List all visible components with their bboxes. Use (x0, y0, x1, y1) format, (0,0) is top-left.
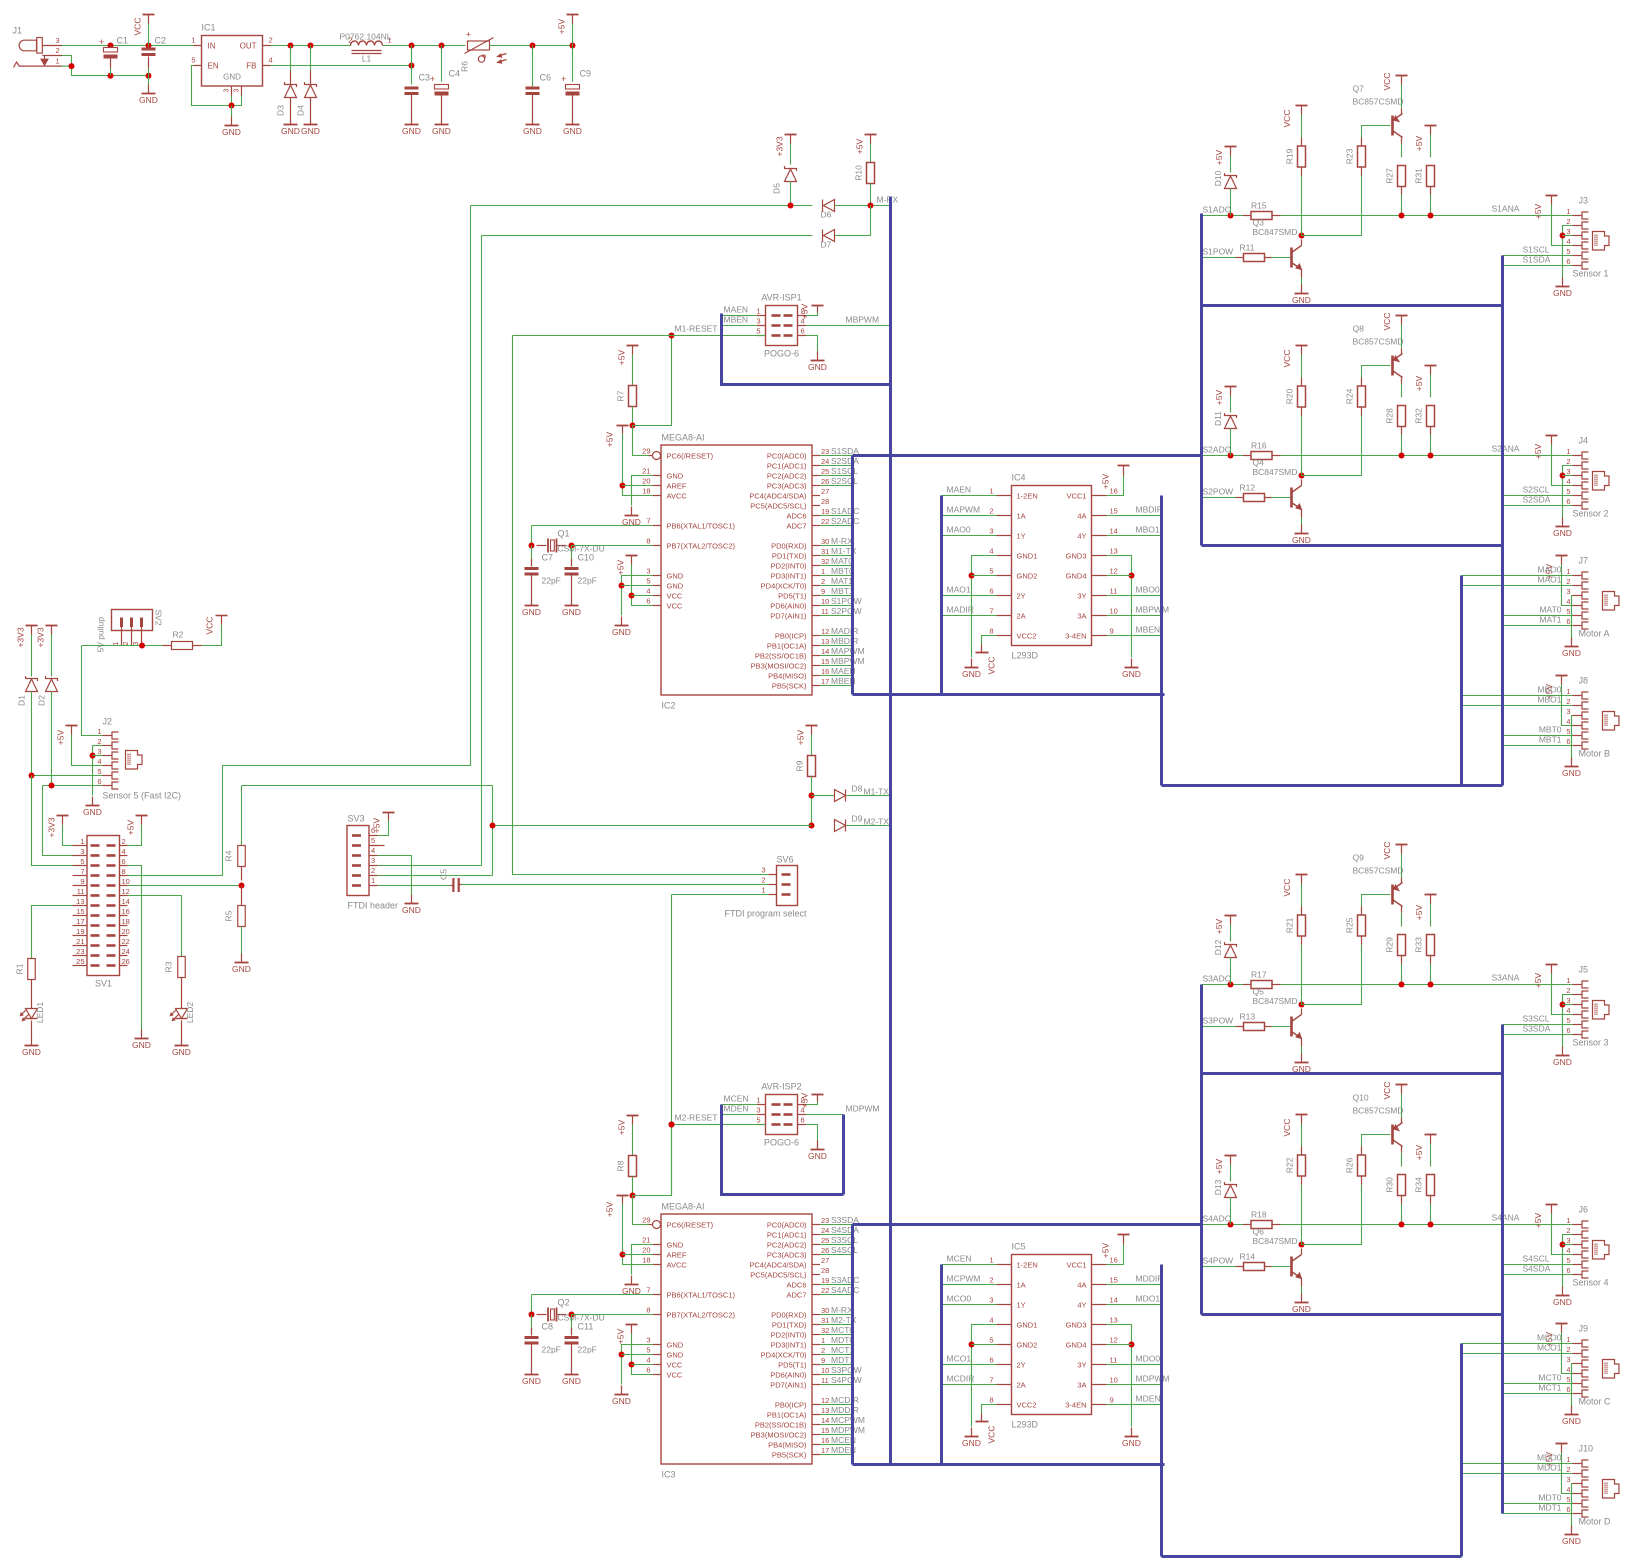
diode D12 symbol (1225, 942, 1237, 958)
svg-text:16: 16 (122, 907, 130, 916)
wire (806, 1102, 818, 1105)
capacitor C8 (532, 1315, 554, 1336)
net label S4SDA (1523, 1264, 1551, 1274)
svg-text:1: 1 (756, 1096, 760, 1105)
junction D1/J2 pin5 (29, 773, 35, 779)
svg-text:PD6(AIN0): PD6(AIN0) (770, 1370, 807, 1379)
junction R34/S4ANA (1428, 1222, 1434, 1228)
svg-text:18: 18 (642, 487, 650, 496)
wire (32, 906, 73, 959)
svg-text:Sensor 5 (Fast I2C): Sensor 5 (Fast I2C) (103, 791, 182, 801)
svg-text:M-RX: M-RX (831, 1305, 853, 1315)
svg-text:+5V: +5V (1414, 375, 1424, 391)
supply +5V at D12 (1214, 916, 1237, 935)
wire (1107, 575, 1132, 577)
svg-text:GND: GND (223, 73, 241, 82)
svg-text:PD6(AIN0): PD6(AIN0) (770, 601, 807, 610)
net stub pin 9 MDT1 (820, 1355, 854, 1365)
svg-text:1: 1 (821, 1336, 825, 1345)
svg-text:22pF: 22pF (542, 1345, 561, 1355)
svg-text:18: 18 (122, 917, 130, 926)
svg-text:9: 9 (1110, 627, 1114, 636)
svg-text:6: 6 (122, 857, 126, 866)
wire (1462, 705, 1573, 707)
junction Q1 right (569, 543, 575, 549)
wire (93, 755, 103, 757)
svg-text:PB5(SCK): PB5(SCK) (772, 681, 807, 690)
junction FB/C3 (409, 63, 415, 69)
diode D1 symbol (26, 676, 38, 692)
svg-text:FB: FB (246, 62, 256, 71)
header AVR-ISP1 (756, 293, 806, 359)
wire (62, 45, 194, 47)
svg-text:MADIR: MADIR (947, 605, 974, 615)
svg-text:BC847SMD: BC847SMD (1253, 467, 1298, 477)
svg-text:+5V: +5V (855, 138, 865, 154)
svg-text:5: 5 (646, 1346, 650, 1355)
wire (63, 825, 73, 846)
junction GND4 IC5 (1129, 1342, 1135, 1348)
transistor Q6 (1292, 1255, 1302, 1279)
svg-text:22: 22 (122, 937, 130, 946)
net stub MBPWM (1107, 605, 1170, 616)
connector J2 Sensor 5 (97, 717, 181, 801)
net stub pin 2 MCT1 (820, 1345, 854, 1355)
svg-text:PD5(T1): PD5(T1) (778, 1360, 807, 1369)
wire (572, 24, 574, 46)
wire (623, 485, 654, 487)
wire (481, 236, 483, 866)
svg-text:C3: C3 (419, 73, 431, 83)
resistor R7 (616, 386, 637, 407)
svg-text:J10: J10 (1579, 1444, 1594, 1454)
svg-text:3A: 3A (1077, 1380, 1086, 1389)
svg-text:PC1(ADC1): PC1(ADC1) (767, 1230, 807, 1239)
svg-text:1: 1 (371, 876, 375, 885)
svg-text:+: + (466, 30, 471, 40)
svg-text:MAT1: MAT1 (1539, 615, 1561, 625)
svg-text:4: 4 (646, 587, 650, 596)
svg-text:R13: R13 (1240, 1012, 1256, 1022)
resistor R16 (1251, 441, 1272, 460)
svg-text:14: 14 (1110, 1296, 1118, 1305)
ground at VCC pins (612, 1386, 631, 1407)
svg-text:MDT0: MDT0 (1538, 1493, 1561, 1503)
svg-text:22: 22 (821, 1286, 829, 1295)
svg-text:S1ADC: S1ADC (1203, 205, 1231, 215)
svg-text:BC857CSMD: BC857CSMD (1353, 97, 1404, 107)
svg-text:OUT: OUT (240, 42, 257, 51)
bus (1501, 256, 1504, 786)
capacitor C11 plates (565, 1336, 579, 1345)
svg-text:R24: R24 (1345, 388, 1355, 404)
wire (972, 1344, 997, 1346)
junction D2/J2 pin6 (49, 783, 55, 789)
bus (1460, 1344, 1463, 1557)
svg-text:1-2EN: 1-2EN (1017, 491, 1038, 500)
svg-text:GND: GND (1553, 288, 1572, 298)
svg-text:9: 9 (1110, 1396, 1114, 1405)
ground below LED1 (22, 1037, 41, 1058)
bus (1202, 1313, 1503, 1316)
svg-text:PB6(XTAL1/TOSC1): PB6(XTAL1/TOSC1) (667, 1290, 736, 1299)
svg-text:R28: R28 (1385, 408, 1395, 424)
svg-text:4: 4 (371, 846, 375, 855)
svg-text:MCDIR: MCDIR (831, 1395, 859, 1405)
net stub pin 9 MBT1 (820, 586, 854, 596)
resistor R8 (616, 1156, 637, 1177)
labels Q8 BC857CSMD (1353, 324, 1404, 347)
wire (672, 335, 758, 337)
svg-text:2Y: 2Y (1017, 1360, 1026, 1369)
wire (622, 576, 654, 616)
svg-text:MBO0: MBO0 (1136, 585, 1160, 595)
svg-text:VCC: VCC (667, 1360, 683, 1369)
connector J5 Sensor 3 (1566, 965, 1609, 1048)
svg-text:1: 1 (80, 837, 84, 846)
diode D5 symbol (785, 166, 797, 182)
wire (110, 69, 112, 76)
wire (1301, 1287, 1303, 1295)
resistor R32 (1414, 406, 1435, 427)
diode D7 (823, 230, 835, 242)
svg-text:1A: 1A (1017, 511, 1026, 520)
ground below LED2 (172, 1037, 191, 1058)
wire (31, 635, 33, 677)
svg-text:3: 3 (756, 317, 760, 326)
net label MAT0 (1539, 605, 1561, 615)
svg-text:R21: R21 (1285, 917, 1295, 933)
wire (32, 776, 73, 866)
capacitor C7 plates (525, 567, 539, 576)
ground left IC4 (962, 659, 981, 680)
svg-text:PB4(MISO): PB4(MISO) (768, 671, 807, 680)
bus (1162, 1555, 1462, 1558)
svg-text:PC0(ADC0): PC0(ADC0) (767, 1220, 807, 1229)
net label S3ADC (1203, 974, 1231, 984)
svg-text:+5V: +5V (605, 1201, 615, 1217)
svg-text:4: 4 (1566, 1485, 1570, 1494)
svg-text:LED1: LED1 (35, 1002, 45, 1024)
svg-text:PC6(/RESET): PC6(/RESET) (667, 451, 714, 460)
svg-text:GND4: GND4 (1066, 571, 1087, 580)
net label S3SCL (1523, 1014, 1550, 1024)
svg-text:PD3(INT1): PD3(INT1) (771, 1340, 807, 1349)
wire (870, 144, 872, 163)
svg-text:+5V: +5V (800, 303, 810, 319)
svg-text:R14: R14 (1240, 1252, 1256, 1262)
svg-text:MDDIR: MDDIR (831, 1405, 859, 1415)
svg-text:S4POW: S4POW (831, 1375, 862, 1385)
bus (722, 1105, 844, 1195)
svg-text:MBEN: MBEN (1136, 625, 1161, 635)
bus (722, 314, 891, 385)
svg-text:C7: C7 (542, 553, 554, 563)
svg-text:GND4: GND4 (1066, 1340, 1087, 1349)
svg-text:R23: R23 (1345, 148, 1355, 164)
svg-text:+5V: +5V (372, 817, 382, 833)
svg-text:VCC: VCC (667, 591, 683, 600)
svg-text:R3: R3 (164, 961, 174, 972)
net stub MADIR (942, 605, 997, 616)
svg-text:MCO0: MCO0 (1537, 1333, 1562, 1343)
transistor Q9 (1393, 883, 1403, 907)
capacitor C4 plates (430, 74, 449, 96)
svg-text:MAO0: MAO0 (947, 525, 971, 535)
svg-text:MEGA8-AI: MEGA8-AI (662, 1202, 705, 1212)
wire (1563, 235, 1573, 237)
svg-text:4: 4 (989, 547, 993, 556)
ground below J8 (1562, 758, 1581, 779)
net label MBT1 (1539, 735, 1562, 745)
svg-text:Q2: Q2 (558, 1298, 570, 1308)
resistor R21 (1285, 915, 1306, 936)
wire (202, 625, 222, 646)
svg-text:C2: C2 (155, 36, 167, 46)
net stub pin 11 S2POW (820, 606, 862, 616)
wire (1462, 1353, 1573, 1355)
svg-text:8: 8 (989, 1396, 993, 1405)
svg-text:D12: D12 (1213, 939, 1223, 955)
wire (493, 825, 812, 827)
svg-text:GND: GND (1292, 535, 1311, 545)
resistor R4 (224, 846, 246, 867)
supply +5V at AREF (605, 1196, 629, 1218)
svg-text:31: 31 (821, 547, 829, 556)
net stub pin 2 MAT1 (820, 576, 853, 586)
svg-text:3: 3 (989, 527, 993, 536)
wire (632, 1125, 634, 1156)
svg-text:R31: R31 (1414, 168, 1424, 184)
svg-text:4: 4 (646, 1356, 650, 1365)
svg-text:16: 16 (1110, 1256, 1118, 1265)
supply VCC above Q9 (1382, 842, 1408, 860)
supply +5V at VCC pins (616, 556, 638, 576)
svg-text:GND: GND (1122, 669, 1141, 679)
svg-text:3: 3 (761, 866, 765, 875)
svg-text:Motor B: Motor B (1579, 749, 1611, 759)
net label S1POW (1203, 247, 1234, 257)
svg-text:24: 24 (821, 1226, 829, 1235)
bus (853, 1223, 1202, 1226)
svg-text:4Y: 4Y (1077, 531, 1086, 540)
svg-text:GND: GND (1562, 648, 1581, 658)
wire (231, 106, 233, 117)
svg-text:VCC2: VCC2 (1017, 631, 1037, 640)
svg-text:21: 21 (642, 467, 650, 476)
wire (972, 556, 997, 658)
bus (1200, 214, 1203, 546)
wire (870, 184, 872, 206)
svg-text:3: 3 (1566, 707, 1570, 716)
junction R30/S4ANA (1399, 1222, 1405, 1228)
svg-text:LED2: LED2 (185, 1002, 195, 1024)
svg-text:GND: GND (667, 471, 684, 480)
bus (940, 496, 943, 695)
wire (1503, 1393, 1573, 1395)
supply +5V at AVR-ISP1 (800, 303, 824, 319)
svg-text:SV3: SV3 (348, 814, 365, 824)
wire (1462, 695, 1573, 697)
svg-text:FTDI program select: FTDI program select (725, 909, 808, 919)
svg-text:5: 5 (1566, 607, 1570, 616)
junction GND pins (619, 583, 625, 589)
svg-text:PC5(ADC5/SCL): PC5(ADC5/SCL) (750, 501, 807, 510)
wire (672, 1124, 758, 1126)
wire (128, 866, 142, 1031)
svg-text:ADC7: ADC7 (786, 1290, 806, 1299)
ground below Q3 (1292, 285, 1311, 306)
svg-text:19: 19 (76, 927, 84, 936)
svg-text:GND: GND (402, 905, 421, 915)
svg-text:PD0(RXD): PD0(RXD) (771, 1310, 807, 1319)
svg-text:1-2EN: 1-2EN (1017, 1260, 1038, 1269)
net label S1SCL (1523, 245, 1550, 255)
wire (1503, 255, 1573, 257)
svg-text:S4POW: S4POW (1203, 1256, 1234, 1266)
svg-text:13: 13 (1110, 1316, 1118, 1325)
svg-text:1: 1 (821, 567, 825, 576)
svg-text:26: 26 (821, 477, 829, 486)
svg-text:VCC: VCC (1282, 350, 1292, 368)
wire (43, 786, 73, 856)
svg-text:MBPWM: MBPWM (831, 656, 865, 666)
svg-text:PC5(ADC5/SCL): PC5(ADC5/SCL) (750, 1270, 807, 1279)
svg-text:ADC6: ADC6 (786, 1280, 806, 1289)
supply +5V at J6 (1533, 1205, 1558, 1229)
svg-text:17: 17 (821, 677, 829, 686)
header SV2 5V pullup (96, 610, 164, 653)
connector J1 power jack (13, 26, 63, 68)
wire (622, 1345, 654, 1385)
supply VCC above R20 (1282, 346, 1308, 368)
net label MDT1 (1538, 1503, 1561, 1513)
diode D11 (1213, 411, 1223, 426)
supply +5V above R31 (1414, 126, 1437, 152)
supply +5V at SV1 pin2 (126, 816, 148, 836)
svg-text:VCC: VCC (987, 657, 997, 675)
net label MCT1 (1538, 1383, 1561, 1393)
net stub MCDIR (942, 1374, 997, 1385)
svg-text:S1ANA: S1ANA (1492, 204, 1520, 214)
svg-text:1: 1 (97, 727, 101, 736)
svg-text:P0762.104NL: P0762.104NL (340, 32, 392, 42)
svg-text:31: 31 (821, 1316, 829, 1325)
junction R8 (630, 1193, 636, 1199)
wire (1107, 1325, 1132, 1427)
svg-text:1: 1 (1566, 1216, 1570, 1225)
svg-text:MCO1: MCO1 (1537, 1343, 1562, 1353)
svg-text:2: 2 (821, 577, 825, 586)
wire (1272, 1026, 1291, 1028)
net label MBPWM (846, 315, 880, 325)
wire (633, 1125, 672, 1196)
labels Q3 BC847SMD (1253, 218, 1298, 238)
junction M2-TX (490, 823, 496, 829)
svg-text:MCT1: MCT1 (831, 1345, 854, 1355)
svg-text:14: 14 (821, 1416, 829, 1425)
net stub pin 10 S1POW (820, 596, 862, 606)
net label MAT1 (1539, 615, 1561, 625)
svg-text:J5: J5 (1579, 965, 1589, 975)
svg-text:+5V: +5V (1414, 135, 1424, 151)
svg-text:PB2(SS/OC1B): PB2(SS/OC1B) (755, 1420, 807, 1429)
wire (1503, 1383, 1573, 1385)
svg-text:9: 9 (821, 1356, 825, 1365)
capacitor C9 (573, 46, 592, 82)
svg-text:R30: R30 (1385, 1177, 1395, 1193)
svg-text:4: 4 (1566, 1365, 1570, 1374)
svg-text:2: 2 (761, 876, 765, 885)
svg-text:+5V: +5V (1214, 918, 1224, 934)
net stub pin 12 MCDIR (820, 1395, 859, 1405)
svg-text:L1: L1 (362, 54, 372, 64)
svg-text:14: 14 (122, 897, 130, 906)
wire (1462, 1463, 1573, 1465)
svg-text:MBO0: MBO0 (1537, 685, 1561, 695)
svg-text:4: 4 (1566, 1246, 1570, 1255)
svg-text:28: 28 (821, 497, 829, 506)
svg-text:GND: GND (132, 1040, 151, 1050)
svg-text:IC2: IC2 (662, 701, 676, 711)
net stub pin 24 S4SDA (820, 1225, 859, 1235)
wire (1362, 126, 1391, 138)
net stub pin 28 nc (821, 497, 829, 506)
svg-text:S4ADC: S4ADC (831, 1285, 859, 1295)
transistor Q4 (1292, 486, 1302, 510)
resistor R31 (1414, 166, 1435, 187)
svg-text:15: 15 (1110, 507, 1118, 516)
wire (1503, 1024, 1573, 1026)
svg-text:1A: 1A (1017, 1280, 1026, 1289)
svg-text:GND: GND (808, 362, 827, 372)
svg-text:29: 29 (642, 447, 650, 456)
wire (972, 1325, 997, 1427)
svg-text:5: 5 (97, 767, 101, 776)
wire (310, 46, 312, 71)
net stub pin 31 M2-TX (820, 1315, 857, 1325)
svg-text:Motor C: Motor C (1579, 1397, 1612, 1407)
svg-text:14: 14 (821, 647, 829, 656)
svg-text:9: 9 (821, 587, 825, 596)
resistor R3 (164, 957, 186, 978)
svg-text:12: 12 (1110, 1336, 1118, 1345)
diode D3 symbol (285, 82, 297, 98)
labels Q6 BC847SMD (1253, 1227, 1298, 1247)
net stub pin 32 MAT0 (820, 556, 853, 566)
svg-text:GND: GND (667, 1240, 684, 1249)
net stub pin 15 MDPWM (820, 1425, 865, 1435)
net label S1ANA (1492, 204, 1520, 214)
svg-text:30: 30 (821, 1306, 829, 1315)
diode D8 (835, 790, 846, 802)
supply +5V at J9 (1544, 1324, 1568, 1348)
junction C6 (530, 43, 536, 49)
wire (1552, 1214, 1573, 1255)
svg-text:5: 5 (80, 857, 84, 866)
svg-text:VCC1: VCC1 (1066, 1260, 1086, 1269)
svg-text:GND: GND (22, 1047, 41, 1057)
svg-text:GND: GND (522, 1376, 541, 1386)
svg-text:+: + (430, 74, 435, 84)
svg-text:MBO1: MBO1 (1537, 695, 1561, 705)
svg-text:R18: R18 (1251, 1210, 1267, 1220)
svg-text:AVCC: AVCC (667, 1260, 688, 1269)
svg-text:EN: EN (208, 62, 219, 71)
pin stub SV3 pin5 (369, 845, 385, 847)
svg-text:2: 2 (123, 641, 130, 645)
crystal Q2 (537, 1298, 605, 1323)
